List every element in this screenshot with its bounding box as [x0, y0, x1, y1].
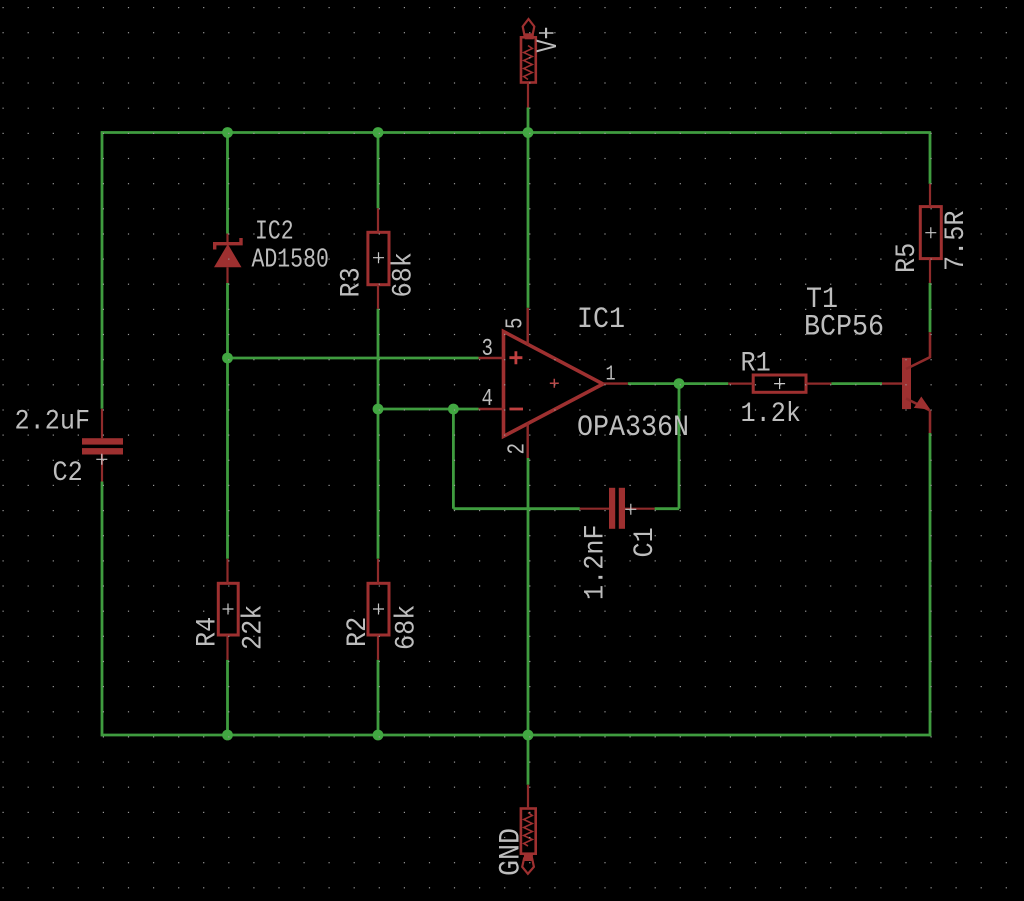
- R2 bottom pin: [377, 635, 379, 660]
- T1 base pin stub: [882, 382, 902, 384]
- IC2 pin stubs: [226, 234, 228, 243]
- supply symbol V+ pinhead: [521, 19, 536, 83]
- svg-text:7.5R: 7.5R: [940, 211, 972, 271]
- wire C1 to feedback right: [655, 507, 679, 510]
- wire R4 to bottom rail: [226, 660, 229, 735]
- IC1 pin4 label: [481, 385, 493, 413]
- C1 pin stubs: [580, 508, 609, 510]
- svg-text:R4: R4: [191, 617, 223, 647]
- svg-text:R5: R5: [891, 243, 923, 273]
- wire top rail to IC2 cathode: [226, 133, 229, 234]
- junction bottom rail / GND: [523, 730, 534, 741]
- supply symbol GND pinhead: [521, 809, 536, 874]
- wire feedback vertical left: [452, 409, 455, 509]
- R3 origin cross: [373, 252, 384, 263]
- label IC1: [577, 302, 625, 337]
- junction R3-R2 / pin4 wire: [373, 404, 384, 415]
- wire top V+ rail: [101, 131, 931, 134]
- svg-text:OPA336N: OPA336N: [577, 410, 689, 445]
- svg-text:C1: C1: [629, 527, 661, 557]
- junction top rail / V+: [523, 127, 534, 138]
- resistor R1: [753, 375, 806, 392]
- svg-text:68k: 68k: [390, 605, 422, 650]
- wire R1 to T1 base: [831, 382, 882, 385]
- capacitor C1 plates: [609, 488, 625, 529]
- IC1 pin5 label: [502, 317, 530, 329]
- T1 emitter pin: [929, 410, 932, 433]
- label BCP56: [804, 309, 884, 344]
- label T1: [806, 282, 838, 317]
- T1 collector: [906, 332, 930, 369]
- IC1 minus mark: [509, 408, 523, 411]
- label 2.2uF: [15, 405, 91, 437]
- svg-text:BCP56: BCP56: [804, 309, 884, 344]
- IC1 pin4 stub (-IN): [479, 408, 504, 410]
- svg-text:R3: R3: [335, 267, 367, 297]
- wire IC2 anode down to R4: [226, 283, 229, 559]
- transistor T1 base bar: [902, 358, 911, 409]
- svg-text:IC2: IC2: [255, 217, 294, 247]
- resistor R4: [218, 583, 238, 635]
- wire IC2 node to IC1 pin3: [228, 357, 479, 360]
- IC1 pin1 label: [606, 362, 616, 386]
- svg-text:1.2nF: 1.2nF: [579, 524, 611, 600]
- label 1.2k: [741, 398, 801, 430]
- label R2: [342, 617, 374, 647]
- C1 origin cross: [625, 504, 636, 515]
- label V+: [531, 27, 565, 53]
- capacitor C2 plates: [82, 438, 123, 454]
- diode IC2 AD1580 (shunt reference): [214, 238, 242, 267]
- svg-text:GND: GND: [493, 828, 528, 876]
- junction IC2 branch / pin3 wire: [222, 353, 233, 364]
- wire IC1 pin2 to bottom rail: [527, 458, 530, 735]
- V+ pin stub: [527, 83, 529, 108]
- svg-text:V+: V+: [531, 27, 565, 53]
- wire bottom rail to GND pin: [527, 735, 530, 785]
- R4 top pin: [226, 559, 228, 584]
- wire R2/R3 node to IC1 pin4: [378, 408, 479, 411]
- label R1: [741, 347, 771, 379]
- R4 origin cross: [223, 604, 234, 615]
- label R4: [191, 617, 223, 647]
- C2 pin stubs: [101, 409, 103, 438]
- op-amp IC1 triangle: [504, 332, 604, 437]
- R1 right pin: [806, 383, 831, 385]
- wire bottom GND rail: [101, 734, 931, 737]
- resistor R5: [920, 207, 941, 259]
- R5 bottom pin: [929, 259, 931, 283]
- IC1 plus mark: [509, 351, 522, 364]
- svg-text:IC1: IC1: [577, 302, 625, 337]
- label 1.2nF: [579, 524, 611, 600]
- R1 origin cross: [774, 378, 785, 389]
- label 22k: [237, 605, 269, 650]
- junction top rail / IC2 branch: [222, 127, 233, 138]
- svg-text:22k: 22k: [237, 605, 269, 650]
- wire T1 emitter to bottom rail: [929, 433, 932, 736]
- label 68k (R3): [387, 252, 419, 297]
- svg-text:C2: C2: [53, 457, 83, 489]
- resistor R2: [368, 583, 389, 635]
- label R3: [335, 267, 367, 297]
- label IC2: [255, 217, 294, 247]
- svg-text:1.2k: 1.2k: [741, 398, 801, 430]
- svg-text:3: 3: [481, 335, 493, 363]
- label 7.5R: [940, 211, 972, 271]
- R3 bottom pin: [377, 285, 379, 309]
- svg-text:R2: R2: [342, 617, 374, 647]
- R4 bottom pin: [226, 635, 228, 660]
- R5 top pin: [929, 184, 931, 207]
- junction top rail / R3 branch: [373, 127, 384, 138]
- label R5: [891, 243, 923, 273]
- svg-text:5: 5: [502, 317, 530, 329]
- label GND: [493, 828, 528, 876]
- label 68k (R2): [390, 605, 422, 650]
- label AD1580: [252, 245, 329, 275]
- wire top rail to R3: [377, 133, 380, 209]
- T1 emitter: [906, 399, 930, 411]
- R1 left pin: [728, 383, 753, 385]
- T1 emitter arrowhead: [914, 397, 931, 410]
- junction pin4 wire / feedback: [448, 404, 459, 415]
- C2 origin cross: [96, 454, 107, 465]
- resistor R3: [368, 232, 389, 284]
- label C1: [629, 527, 661, 557]
- R2 top pin: [377, 559, 379, 584]
- R3 top pin: [377, 208, 379, 232]
- label OPA336N: [577, 410, 689, 445]
- junction output / feedback: [674, 378, 685, 389]
- wire IC1 out to R1: [628, 382, 729, 385]
- wire feedback to C1: [453, 507, 579, 510]
- IC1 pin2 stub (V-): [527, 423, 529, 459]
- svg-text:2: 2: [504, 443, 532, 455]
- IC1 pin3 label: [481, 335, 493, 363]
- junction bottom rail / R2: [373, 730, 384, 741]
- svg-text:1: 1: [606, 362, 616, 386]
- label C2: [53, 457, 83, 489]
- junction bottom rail / R4: [222, 730, 233, 741]
- wire R3 to R2: [377, 309, 380, 559]
- IC1 output pin1 stub: [603, 382, 628, 384]
- wire feedback vertical right: [678, 384, 681, 509]
- svg-text:4: 4: [481, 385, 493, 413]
- IC1 pin3 stub (+IN): [479, 357, 504, 359]
- wire right rail to R5: [929, 133, 932, 184]
- wire left rail lower (from C2): [101, 482, 104, 737]
- IC1 pin2 label: [504, 443, 532, 455]
- wire R2 to bottom rail: [377, 660, 380, 735]
- wire V+ pin to top rail: [527, 108, 530, 133]
- svg-text:AD1580: AD1580: [252, 245, 329, 275]
- svg-text:68k: 68k: [387, 252, 419, 297]
- wire R5 to T1 collector: [929, 283, 932, 332]
- R5 origin cross: [925, 227, 936, 238]
- svg-text:R1: R1: [741, 347, 771, 379]
- GND pin stub: [527, 785, 529, 809]
- R2 origin cross: [373, 604, 384, 615]
- wire left rail upper (to C2): [101, 131, 104, 409]
- wire top rail to IC1 pin5: [527, 133, 530, 308]
- IC1 pin5 stub (V+): [527, 308, 529, 345]
